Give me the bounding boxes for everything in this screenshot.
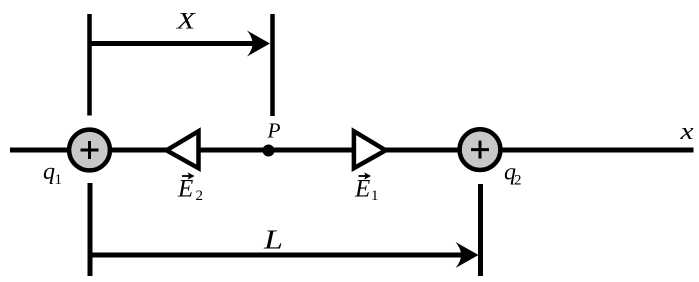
svg-text:q: q	[43, 159, 55, 185]
svg-text:E: E	[354, 175, 370, 202]
dimension arrow L	[90, 242, 479, 268]
svg-text:2: 2	[196, 188, 204, 204]
tick below charge q1	[88, 183, 93, 276]
charge q2 (circle with plus)	[460, 129, 501, 170]
svg-text:X: X	[176, 9, 196, 34]
label E1 with vector bar	[354, 172, 379, 204]
label q1	[43, 159, 62, 188]
svg-text:P: P	[266, 119, 280, 143]
svg-text:2: 2	[514, 173, 522, 189]
x-axis wire	[10, 148, 694, 153]
svg-text:1: 1	[55, 172, 63, 188]
svg-text:E: E	[177, 175, 193, 202]
label E2 with vector bar	[177, 172, 203, 204]
dimension arrow X	[90, 31, 271, 57]
svg-text:1: 1	[371, 188, 379, 204]
tick below charge q2	[478, 184, 483, 276]
field arrow E2 (left-pointing triangle)	[167, 131, 199, 168]
svg-text:L: L	[263, 225, 283, 255]
label q2	[504, 160, 522, 189]
tick above point P	[270, 14, 275, 116]
point P (dot)	[263, 145, 275, 157]
charge q1 (circle with plus)	[69, 130, 110, 171]
svg-text:x: x	[679, 119, 694, 145]
tick above charge q1	[87, 14, 92, 116]
field arrow E1 (right-pointing triangle)	[354, 131, 386, 168]
